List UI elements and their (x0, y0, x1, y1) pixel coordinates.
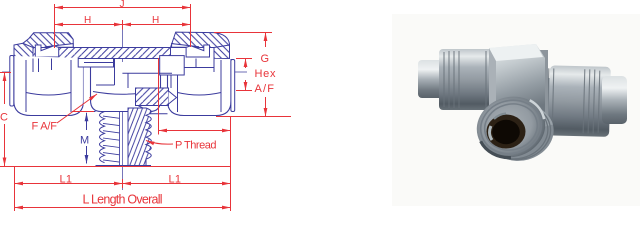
svg-text:Hex: Hex (255, 68, 277, 80)
svg-text:F A/F: F A/F (32, 121, 58, 133)
svg-text:H: H (84, 15, 91, 26)
svg-text:J: J (120, 0, 125, 10)
svg-text:M: M (80, 135, 89, 147)
svg-text:A/F: A/F (255, 83, 275, 95)
svg-text:L1: L1 (169, 174, 182, 186)
svg-text:P Thread: P Thread (175, 140, 217, 152)
svg-text:L1: L1 (60, 174, 73, 186)
svg-text:C: C (0, 112, 8, 124)
svg-text:H: H (152, 15, 159, 26)
svg-text:G: G (261, 53, 270, 65)
svg-text:L Length Overall: L Length Overall (83, 192, 163, 206)
